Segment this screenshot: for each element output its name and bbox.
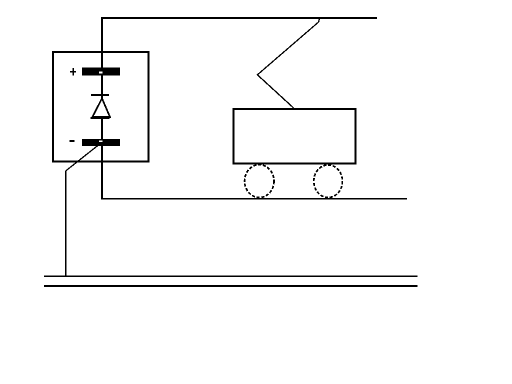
tram body [234,109,356,164]
terminal bar + [82,68,120,76]
wheel [245,165,274,198]
power supply box [53,52,149,162]
wire [101,17,377,19]
pantograph [257,19,319,108]
rail [44,275,418,277]
wire [66,144,100,171]
label + [70,68,76,76]
terminal bar - [82,139,120,146]
wheel [314,165,343,198]
diode D1 [90,95,110,118]
wire [101,198,407,200]
wire [101,17,103,200]
label - [69,140,74,142]
wire [65,171,67,276]
rail [44,285,418,287]
